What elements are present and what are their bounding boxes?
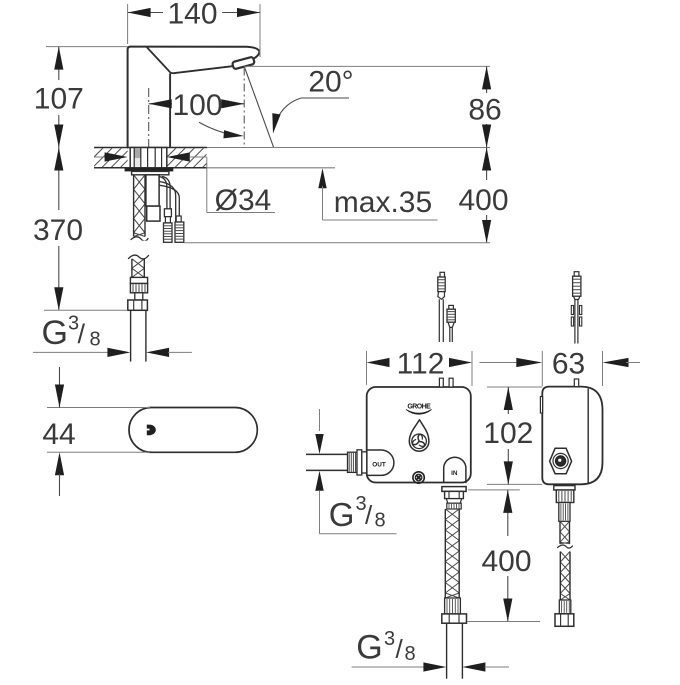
water stream centerline <box>243 68 245 148</box>
svg-text:max.35: max.35 <box>334 186 432 219</box>
svg-text:8: 8 <box>90 329 101 351</box>
right hose crimp <box>559 600 571 614</box>
faucet spout underside <box>147 48 231 74</box>
dimension max 35 <box>318 168 326 188</box>
bleed screw <box>413 472 424 483</box>
right hose fitting <box>554 486 575 490</box>
sensor window mark <box>147 425 156 436</box>
svg-text:20°: 20° <box>308 66 353 99</box>
dimension 140 <box>127 4 129 44</box>
OUT port label <box>367 450 394 475</box>
svg-text:400: 400 <box>458 184 508 217</box>
countertop top line <box>94 147 207 149</box>
mounting rod break <box>131 237 148 241</box>
IN port label <box>444 457 466 482</box>
dimension 112 <box>366 351 368 385</box>
control box front view <box>367 387 471 483</box>
svg-text:IN: IN <box>451 470 458 477</box>
cable plug 2 <box>176 216 181 222</box>
faucet mounting shank <box>130 148 167 168</box>
dimension 100 <box>149 103 172 105</box>
svg-text:370: 370 <box>33 214 83 247</box>
svg-text:Ø34: Ø34 <box>215 184 272 217</box>
sensor cable connector C <box>574 272 579 277</box>
dimension 107 <box>46 46 128 48</box>
left hose crimp <box>445 598 461 614</box>
G3/8 pipe dimension arrows <box>33 351 108 353</box>
370 lower reference line <box>44 309 128 311</box>
svg-text:400: 400 <box>481 545 531 578</box>
box top cable stubs <box>439 378 443 387</box>
right flexible hose lower <box>560 552 570 601</box>
faucet body outline <box>128 47 260 148</box>
turbine symbol <box>418 434 422 441</box>
water stream 20deg line <box>245 69 274 148</box>
svg-text:63: 63 <box>552 348 585 381</box>
outlet port hex <box>550 448 572 473</box>
dimension 86 <box>244 65 490 67</box>
dimension hole diameter 34 <box>94 156 106 158</box>
svg-text:G: G <box>42 314 68 352</box>
sensor cable connector A <box>440 272 445 277</box>
cable plug 1 <box>164 209 171 217</box>
svg-text:OUT: OUT <box>372 461 386 468</box>
water drop icon <box>409 420 429 451</box>
svg-text:G: G <box>329 496 355 533</box>
svg-text:100: 100 <box>172 89 222 122</box>
dimension 400 upper <box>486 148 488 181</box>
side panel seam <box>587 389 589 484</box>
G3/8 outlet leader <box>319 409 321 431</box>
threaded mounting rod <box>134 175 145 237</box>
right flexible hose upper <box>560 521 570 544</box>
angle arc <box>200 123 240 136</box>
box top cable stub right <box>574 379 578 387</box>
mounting clip <box>540 397 542 414</box>
dimension 63 <box>541 351 543 386</box>
svg-text:GROHE: GROHE <box>407 404 431 411</box>
right hose nut <box>555 614 574 627</box>
left hose nut <box>442 614 467 623</box>
faucet base right edge <box>169 74 171 148</box>
hose hex nut <box>128 300 148 310</box>
dimension 102 <box>487 386 542 388</box>
aerator <box>232 57 255 70</box>
svg-text:140: 140 <box>167 0 217 31</box>
cable inline connector C <box>571 306 573 315</box>
OUT pipe <box>306 453 348 455</box>
hose crimp collar <box>130 277 147 283</box>
sensor cable connector B <box>449 305 454 309</box>
faucet base centerline <box>148 88 150 148</box>
G3/8 supply dimension arrows <box>352 666 424 668</box>
IN hose fitting <box>442 487 466 492</box>
escutcheon flange <box>125 168 174 172</box>
plastic sleeve <box>146 175 159 206</box>
hose break squiggle <box>129 255 149 259</box>
svg-text:/: / <box>396 634 404 664</box>
right hose break <box>558 545 573 548</box>
control box side view <box>542 387 602 485</box>
svg-text:/: / <box>365 500 373 530</box>
top view reference lines <box>47 407 150 409</box>
svg-text:112: 112 <box>397 348 445 381</box>
dimension 370 <box>58 148 60 211</box>
svg-text:/: / <box>78 319 86 349</box>
svg-text:3: 3 <box>384 628 395 650</box>
connection tail pipe <box>130 310 132 361</box>
svg-text:86: 86 <box>468 94 501 127</box>
svg-text:8: 8 <box>405 643 416 665</box>
left tail pipe <box>446 623 448 679</box>
svg-text:G: G <box>356 629 382 667</box>
svg-text:102: 102 <box>483 417 533 450</box>
sensor cable wires <box>159 177 167 209</box>
hose neck <box>135 293 143 300</box>
faucet top view outline <box>129 408 257 453</box>
svg-text:44: 44 <box>42 418 75 451</box>
svg-text:107: 107 <box>34 83 84 116</box>
countertop bottom line <box>94 167 207 169</box>
svg-text:8: 8 <box>375 510 386 532</box>
dimension 400 lower <box>468 489 520 491</box>
dimension 44 <box>59 367 61 385</box>
left flexible hose <box>445 509 459 598</box>
braided hose upper <box>132 259 144 278</box>
400 lower reference line <box>184 242 490 244</box>
